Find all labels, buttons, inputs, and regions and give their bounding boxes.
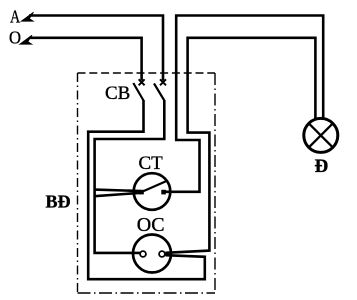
- breaker CB pole 1 contact x-mark: [139, 79, 145, 85]
- board BD dashed outline right edge: [214, 73, 216, 293]
- wire: switch CT output up with jog, over the top, down to lamp: [164, 16, 323, 192]
- source arrow A: [21, 12, 33, 21]
- breaker CB pole 2 contact x-mark: [160, 79, 166, 85]
- wire: phase bus tap lower to switch CT left terminal: [95, 193, 141, 196]
- switch CT right terminal: [161, 190, 166, 195]
- lamp D cross diagonal 1: [309, 123, 333, 147]
- lamp D cross diagonal 2: [309, 123, 333, 147]
- source arrow O: [20, 35, 32, 44]
- socket OC body circle: [133, 235, 171, 273]
- board BD dashed outline top edge: [78, 72, 216, 74]
- socket OC right terminal: [159, 251, 165, 257]
- svg-text:CB: CB: [105, 83, 130, 104]
- svg-text:Đ: Đ: [315, 156, 329, 177]
- wire: lamp return up, over the top, down with jog to socket OC right terminal: [166, 38, 316, 253]
- wire: CB2 output down to inner phase bus, to socket left terminal: [95, 100, 165, 253]
- board BD dashed outline left edge: [77, 73, 79, 293]
- svg-text:A: A: [10, 7, 20, 27]
- switch CT blade: [142, 181, 167, 192]
- svg-text:BĐ: BĐ: [46, 192, 71, 212]
- wire: CB1 output down to outer neutral bus, left side, bottom bus, riser to socket right terminal: [88, 100, 205, 279]
- svg-text:CT: CT: [139, 153, 164, 174]
- breaker CB pole 1 blade: [133, 83, 143, 101]
- switch CT body circle: [134, 173, 171, 210]
- svg-text:OC: OC: [137, 214, 165, 236]
- board BD dashed outline bottom edge: [78, 292, 216, 294]
- lamp D body circle: [304, 118, 338, 152]
- switch CT left terminal: [139, 190, 144, 195]
- wire: phase A from source to CB2: [29, 16, 163, 81]
- socket OC left terminal: [140, 251, 146, 257]
- breaker CB pole 2 blade: [154, 83, 164, 100]
- wire: phase bus tap upper to switch CT left terminal: [95, 190, 141, 191]
- wire: neutral O from source to CB1: [29, 38, 142, 81]
- svg-text:O: O: [9, 28, 21, 48]
